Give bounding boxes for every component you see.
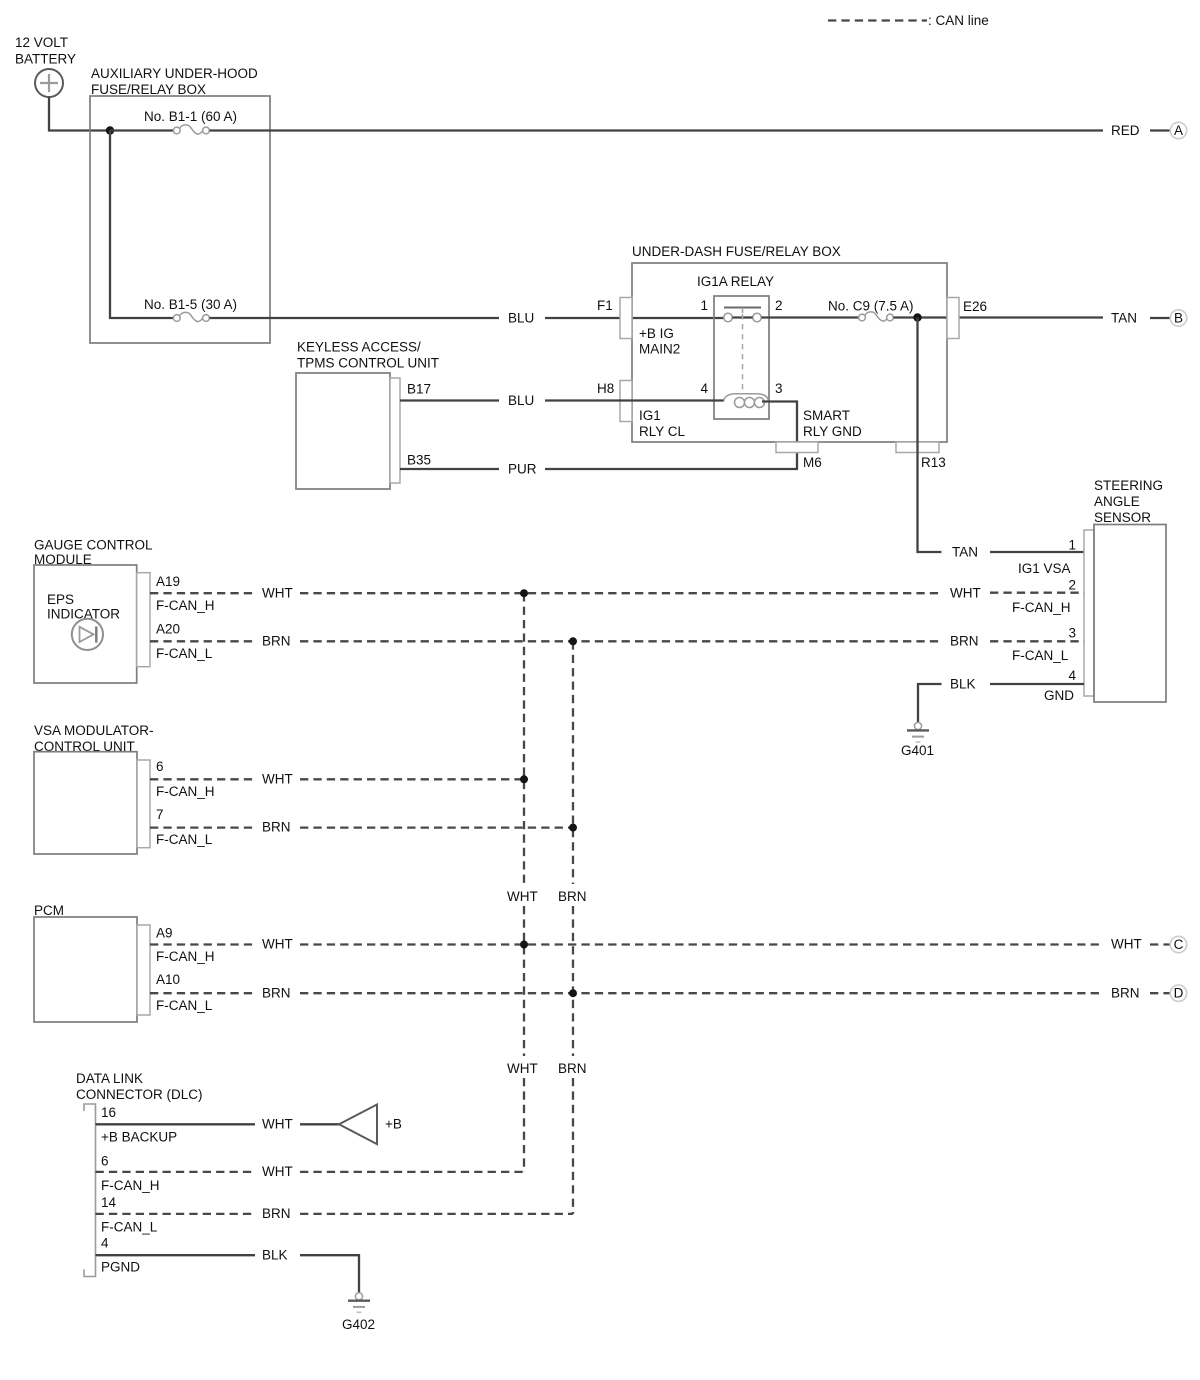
- legend: CAN line sample: [828, 13, 989, 28]
- svg-text:BRN: BRN: [262, 986, 291, 1001]
- svg-text:WHT: WHT: [507, 889, 538, 904]
- svg-text:PUR: PUR: [508, 462, 537, 477]
- svg-text:B35: B35: [407, 453, 431, 468]
- svg-text:BLU: BLU: [508, 393, 534, 408]
- svg-text:B: B: [1174, 311, 1183, 326]
- steering angle sensor: [1084, 478, 1166, 702]
- svg-text:BRN: BRN: [262, 1206, 291, 1221]
- wire relay pin3 to M6: [762, 402, 797, 470]
- fuse C9 No. C9 (7.5 A): [828, 299, 914, 322]
- node +B supply triangle: [339, 1105, 402, 1145]
- connector M6: [776, 442, 822, 470]
- wire WHT F-CAN_H from VSA: [150, 778, 255, 780]
- wire BLK PGND to G402: [96, 1254, 256, 1256]
- node junction battery feed: [106, 126, 114, 134]
- svg-text:F-CAN_L: F-CAN_L: [156, 646, 213, 661]
- svg-text:A9: A9: [156, 926, 173, 941]
- wire BRN F-CAN_L from gauge: [150, 640, 255, 642]
- svg-text:F1: F1: [597, 298, 613, 313]
- svg-text:F-CAN_L: F-CAN_L: [156, 832, 213, 847]
- svg-text:BRN: BRN: [262, 820, 291, 835]
- wire BRN F-CAN_L from VSA: [150, 826, 255, 828]
- svg-text:H8: H8: [597, 381, 614, 396]
- svg-text:BATTERY: BATTERY: [15, 52, 76, 67]
- svg-text:PGND: PGND: [101, 1260, 140, 1275]
- svg-text:BLK: BLK: [262, 1248, 288, 1263]
- connector A: [1170, 122, 1186, 138]
- wire WHT +B BACKUP: [96, 1123, 256, 1125]
- keyless access / TPMS control unit: [296, 340, 439, 490]
- svg-text:PCM: PCM: [34, 903, 64, 918]
- svg-text:A19: A19: [156, 574, 180, 589]
- svg-text:6: 6: [101, 1154, 109, 1169]
- wire BRN F-CAN_L from PCM to connector D: [150, 992, 255, 994]
- svg-text:4: 4: [1068, 668, 1076, 683]
- node gauge BRN junction: [569, 637, 577, 645]
- svg-text:C: C: [1174, 937, 1184, 952]
- svg-text:WHT: WHT: [262, 937, 293, 952]
- svg-text:7: 7: [156, 807, 164, 822]
- svg-text:BRN: BRN: [950, 634, 979, 649]
- wire CAN bus vertical BRN: [572, 641, 574, 1214]
- battery 12 VOLT BATTERY: [15, 35, 76, 97]
- svg-text:6: 6: [156, 759, 164, 774]
- svg-text:BRN: BRN: [262, 634, 291, 649]
- svg-text:WHT: WHT: [1111, 937, 1142, 952]
- node PCM WHT junction: [520, 941, 528, 949]
- relay IG1A RELAY: [697, 274, 783, 419]
- connector E26: [947, 298, 987, 339]
- svg-text:2: 2: [1068, 578, 1076, 593]
- svg-text:F-CAN_H: F-CAN_H: [156, 784, 215, 799]
- svg-text:B17: B17: [407, 382, 431, 397]
- svg-text:No. B1-1 (60 A): No. B1-1 (60 A): [144, 109, 237, 124]
- svg-text:VSA MODULATOR-: VSA MODULATOR-: [34, 723, 154, 738]
- wire BLK sensor pin 4 to G401: [918, 684, 942, 722]
- svg-text:14: 14: [101, 1195, 117, 1210]
- wire junction to fuse B1-1: [110, 129, 174, 131]
- node VSA BRN junction: [569, 824, 577, 832]
- connector B: [1170, 310, 1186, 326]
- connector H8: [597, 381, 632, 422]
- connector C: [1170, 936, 1186, 952]
- svg-text:GND: GND: [1044, 688, 1074, 703]
- svg-text:M6: M6: [803, 455, 822, 470]
- svg-text:4: 4: [101, 1236, 109, 1251]
- svg-text:TPMS CONTROL UNIT: TPMS CONTROL UNIT: [297, 356, 439, 371]
- svg-text:4: 4: [700, 381, 708, 396]
- pin label +B IG MAIN2: [639, 326, 680, 357]
- node gauge WHT junction: [520, 589, 528, 597]
- connector F1: [597, 298, 632, 339]
- svg-text:3: 3: [1068, 626, 1076, 641]
- svg-text:BRN: BRN: [1111, 986, 1140, 1001]
- fuse B1-5 No. B1-5 (30 A): [144, 297, 237, 322]
- svg-text:A20: A20: [156, 622, 180, 637]
- wire fuse C9 to E26 and TAN: [893, 316, 1103, 318]
- svg-text:AUXILIARY UNDER-HOOD: AUXILIARY UNDER-HOOD: [91, 66, 258, 81]
- wire battery positive to junction: [49, 97, 107, 131]
- svg-text:BLK: BLK: [950, 677, 976, 692]
- svg-text:G401: G401: [901, 743, 934, 758]
- svg-text:EPS: EPS: [47, 592, 74, 607]
- ground G401: [901, 722, 934, 758]
- svg-text:WHT: WHT: [262, 772, 293, 787]
- svg-text:UNDER-DASH FUSE/RELAY BOX: UNDER-DASH FUSE/RELAY BOX: [632, 244, 841, 259]
- svg-text:F-CAN_L: F-CAN_L: [156, 998, 213, 1013]
- svg-text:IG1: IG1: [639, 408, 661, 423]
- svg-text:+B: +B: [385, 1117, 402, 1132]
- svg-text:2: 2: [775, 298, 783, 313]
- auxiliary under-hood fuse/relay box: [90, 66, 270, 343]
- svg-text:+B BACKUP: +B BACKUP: [101, 1130, 177, 1145]
- svg-text:WHT: WHT: [262, 586, 293, 601]
- svg-text:GAUGE CONTROL: GAUGE CONTROL: [34, 538, 153, 553]
- wire CAN bus vertical WHT: [523, 593, 525, 1172]
- ground G402: [342, 1293, 375, 1332]
- gauge control module: [34, 538, 153, 684]
- wire R13 drop to TAN: [918, 318, 942, 553]
- wire between relay terminals: [732, 316, 752, 318]
- svg-text:1: 1: [1068, 538, 1076, 553]
- svg-text:WHT: WHT: [507, 1061, 538, 1076]
- svg-text:F-CAN_L: F-CAN_L: [101, 1220, 158, 1235]
- connector D: [1170, 985, 1186, 1001]
- svg-text:E26: E26: [963, 299, 987, 314]
- wire PUR B35 to M6: [400, 468, 499, 470]
- svg-text:F-CAN_H: F-CAN_H: [1012, 600, 1071, 615]
- wire BRN F-CAN_L from DLC: [96, 1213, 256, 1215]
- svg-text:SMART: SMART: [803, 408, 850, 423]
- svg-text:BLU: BLU: [508, 311, 534, 326]
- svg-text:WHT: WHT: [262, 1164, 293, 1179]
- relay contact bar: [724, 307, 761, 309]
- svg-text:F-CAN_L: F-CAN_L: [1012, 648, 1069, 663]
- svg-text:IG1 VSA: IG1 VSA: [1018, 561, 1071, 576]
- wire WHT F-CAN_H from gauge: [150, 592, 255, 594]
- svg-text:BRN: BRN: [558, 889, 587, 904]
- relay terminal pin 2: [753, 313, 762, 322]
- svg-text:F-CAN_H: F-CAN_H: [156, 598, 215, 613]
- svg-text:IG1A RELAY: IG1A RELAY: [697, 274, 774, 289]
- svg-text:No. B1-5 (30 A): No. B1-5 (30 A): [144, 297, 237, 312]
- svg-text:CONNECTOR (DLC): CONNECTOR (DLC): [76, 1087, 203, 1102]
- svg-text:STEERING: STEERING: [1094, 478, 1163, 493]
- svg-text:+B IG: +B IG: [639, 326, 674, 341]
- svg-text:RED: RED: [1111, 123, 1140, 138]
- node PCM BRN junction: [569, 989, 577, 997]
- svg-text:ANGLE: ANGLE: [1094, 494, 1140, 509]
- connector R13: [896, 442, 946, 470]
- wire RED to connector A: [210, 129, 1104, 131]
- relay coil: [724, 394, 769, 402]
- svg-text:TAN: TAN: [1111, 311, 1137, 326]
- svg-text:FUSE/RELAY BOX: FUSE/RELAY BOX: [91, 82, 206, 97]
- PCM: [34, 903, 150, 1022]
- svg-text:RLY GND: RLY GND: [803, 424, 862, 439]
- svg-text:G402: G402: [342, 1317, 375, 1332]
- svg-text:12 VOLT: 12 VOLT: [15, 35, 68, 50]
- wire relay pin2 to fuse C9: [761, 316, 858, 318]
- svg-text:WHT: WHT: [950, 586, 981, 601]
- svg-text:16: 16: [101, 1105, 116, 1120]
- svg-text:RLY CL: RLY CL: [639, 424, 686, 439]
- svg-text:SENSOR: SENSOR: [1094, 510, 1151, 525]
- pin label SMART RLY GND: [803, 408, 862, 439]
- svg-text:F-CAN_H: F-CAN_H: [156, 949, 215, 964]
- svg-text:F-CAN_H: F-CAN_H: [101, 1178, 160, 1193]
- under-dash fuse/relay box: [632, 244, 947, 442]
- fuse B1-1 No. B1-1 (60 A): [144, 109, 237, 134]
- svg-text:A10: A10: [156, 972, 180, 987]
- wire WHT F-CAN_H from PCM to connector C: [150, 943, 255, 945]
- relay actuator dashed: [742, 314, 744, 391]
- wire WHT F-CAN_H from DLC: [96, 1171, 256, 1173]
- svg-text:TAN: TAN: [952, 545, 978, 560]
- svg-text:D: D: [1174, 986, 1184, 1001]
- svg-text:: CAN line: : CAN line: [928, 13, 989, 28]
- relay terminal pin 1: [724, 313, 733, 322]
- data link connector DLC: [76, 1071, 203, 1277]
- svg-text:WHT: WHT: [262, 1117, 293, 1132]
- node VSA WHT junction: [520, 775, 528, 783]
- svg-text:KEYLESS ACCESS/: KEYLESS ACCESS/: [297, 340, 421, 355]
- svg-text:BRN: BRN: [558, 1061, 587, 1076]
- svg-text:1: 1: [700, 298, 708, 313]
- VSA modulator-control unit: [34, 723, 154, 854]
- svg-text:3: 3: [775, 381, 783, 396]
- pin label IG1 RLY CL: [639, 408, 686, 439]
- wire BLU B17 to relay pin4: [400, 399, 499, 401]
- wire BLU fuse B1-5 to F1: [210, 317, 500, 319]
- svg-text:MAIN2: MAIN2: [639, 342, 680, 357]
- svg-text:A: A: [1174, 123, 1183, 138]
- EPS indicator: [47, 592, 120, 650]
- svg-text:R13: R13: [921, 455, 946, 470]
- wire junction down to fuse B1-5: [110, 131, 174, 319]
- node junction at R13 drop: [913, 313, 921, 321]
- svg-text:DATA LINK: DATA LINK: [76, 1071, 143, 1086]
